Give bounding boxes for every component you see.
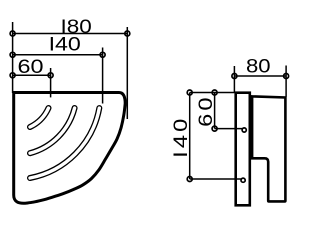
svg-text:I40: I40	[49, 34, 81, 55]
svg-text:60: 60	[17, 56, 43, 77]
svg-text:I40: I40	[170, 116, 191, 158]
svg-text:60: 60	[195, 94, 216, 127]
svg-text:80: 80	[246, 56, 271, 77]
